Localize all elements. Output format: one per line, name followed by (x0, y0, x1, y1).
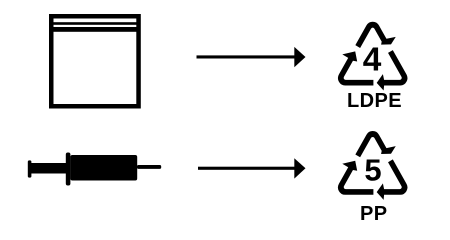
chasing arrow bottom-left (328, 47, 376, 100)
svg-text:PP: PP (360, 203, 387, 225)
chasing arrow bottom-left (328, 156, 376, 209)
arrow 1 shaft (197, 55, 296, 58)
ziplock bag outline (51, 16, 138, 106)
syringe flange (66, 153, 71, 186)
recycling symbol 5 (PP) (328, 131, 416, 209)
svg-text:5: 5 (364, 153, 381, 188)
bag seal thick line (54, 27, 137, 32)
arrow 2 shaft (198, 167, 296, 170)
chasing arrow top (355, 22, 395, 48)
syringe plunger thumb rest (28, 160, 32, 177)
svg-text:LDPE: LDPE (347, 90, 402, 112)
arrow 2 head (294, 158, 305, 178)
chasing arrow bottom-right (371, 49, 416, 99)
chasing arrow bottom-right (371, 158, 416, 208)
syringe needle (137, 165, 161, 169)
svg-text:4: 4 (363, 42, 382, 79)
recycling symbol 4 (LDPE) (328, 22, 416, 100)
syringe barrel (70, 155, 137, 181)
syringe plunger rod (31, 163, 67, 174)
arrow 1 head (294, 47, 305, 67)
chasing arrow top (355, 131, 395, 157)
bag seal thin line (54, 22, 137, 25)
